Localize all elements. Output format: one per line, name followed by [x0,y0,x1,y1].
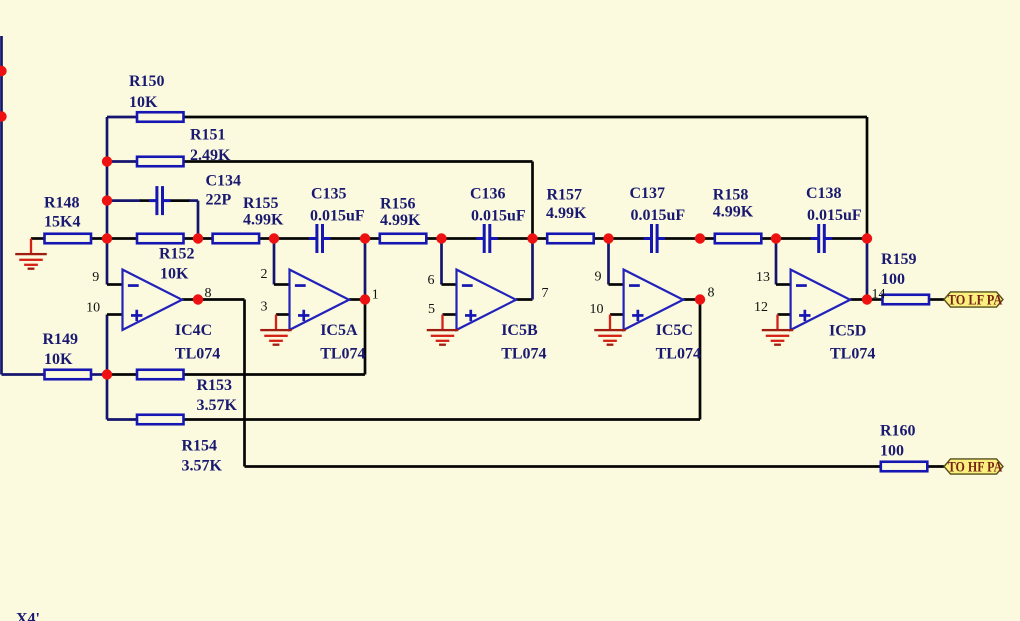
op-amp IC5D [791,270,851,330]
ground at IC5B plus input [427,315,459,346]
wire IC5B minus vertical [440,239,443,285]
svg-text:3.57K: 3.57K [197,397,238,414]
svg-text:R149: R149 [43,331,79,348]
wire vertical x=107 upper [106,117,109,285]
svg-text:TO HF PA: TO HF PA [948,460,1003,476]
junction (700,238.5) [695,233,705,243]
wire main row ground stub [31,237,45,240]
svg-text:4.99K: 4.99K [243,212,284,229]
svg-text:TL074: TL074 [175,346,220,363]
capacitor C138 [811,224,833,253]
junction IC5D output (867,299.5) [862,294,872,304]
wire R160 to port [927,465,944,468]
junction (198,238.5) [193,233,203,243]
junction (107,162) R151 tap [102,156,112,166]
svg-text:4.99K: 4.99K [713,203,754,220]
wire IC5C minus stub [609,283,624,286]
svg-text:C134: C134 [206,173,242,190]
junction (441.5,238.5) [436,233,446,243]
wire R151 feedback drop at x=532 [531,162,534,239]
junction (532.5,238.5) [527,233,537,243]
svg-text:15K4: 15K4 [44,214,80,231]
wire R149 to node [91,373,107,376]
svg-text:14: 14 [872,287,886,302]
svg-text:2: 2 [261,267,268,282]
svg-text:100: 100 [881,271,905,288]
wire IC5D node vertical [866,239,869,300]
wire IC4C minus stub [107,283,123,286]
svg-text:10K: 10K [129,94,158,111]
junction (107,374.5) R149/R153 [102,369,112,379]
wire C134 drop at x=198 [197,201,200,239]
wire IC5D minus stub [776,283,791,286]
resistor R152 [137,234,184,244]
svg-text:100: 100 [880,443,904,460]
svg-text:R148: R148 [44,195,80,212]
svg-text:TL074: TL074 [320,346,365,363]
svg-text:R154: R154 [182,438,218,455]
svg-text:TL074: TL074 [830,346,875,363]
wire IC5D output stub [850,298,867,301]
svg-text:R160: R160 [880,423,916,440]
wire C134 right corner [189,199,198,202]
resistor R159 [883,295,930,305]
ground at R148 [15,239,47,270]
svg-text:9: 9 [595,270,602,285]
junction (776,238.5) [771,233,781,243]
wire IC5A minus vertical [273,239,276,285]
svg-text:0.015uF: 0.015uF [631,207,686,224]
svg-text:5: 5 [428,302,435,317]
wire vertical x=365 output to R153 row [364,300,367,375]
wire IC5D plus stub [778,313,791,316]
svg-text:R157: R157 [547,187,583,204]
capacitor C134 [149,186,171,215]
op-amp IC5B [457,270,517,330]
wire IC5C minus vertical [607,239,610,285]
svg-text:22P: 22P [206,192,232,209]
svg-text:R159: R159 [881,251,917,268]
junction IC5A output (365,299.5) [360,294,370,304]
svg-text:IC5B: IC5B [501,322,538,339]
wire IC5B node vertical [531,239,534,300]
svg-text:R156: R156 [380,196,416,213]
ground at IC5A plus input [260,315,292,346]
wire node to R154 [107,418,137,421]
capacitor C135 [309,224,331,253]
svg-text:C138: C138 [806,185,842,202]
wire R159 to port [929,298,944,301]
svg-text:R153: R153 [197,377,233,394]
op-amp IC4C [123,270,183,330]
svg-text:10K: 10K [160,265,189,282]
wire main row C137 to R158 [665,237,716,240]
wire IC4C output stub [182,298,198,301]
svg-text:4.99K: 4.99K [546,205,587,222]
svg-text:TL074: TL074 [656,346,701,363]
wire main row R155 to C135 [259,237,310,240]
svg-text:C137: C137 [630,185,666,202]
op-amp IC5C [624,270,684,330]
resistor R151 [137,157,184,167]
wire R151 row left stub [107,160,137,163]
wire IC5A node vertical [364,239,367,300]
resistor R148 [45,234,92,244]
ground at IC5D plus input [762,315,794,346]
wire R153 to x=365 [184,373,366,376]
wire IC5D minus vertical [775,239,778,285]
resistor R156 [380,234,427,244]
wire main row R152 to R155 [184,237,213,240]
svg-text:3.57K: 3.57K [182,458,223,475]
svg-text:IC5C: IC5C [656,322,693,339]
wire main row C138 to x=867 [832,237,867,240]
resistor R158 [715,234,762,244]
junction (867,238.5) [862,233,872,243]
resistor R153 [137,370,184,380]
wire main row R158 to C138 [761,237,811,240]
wire left bus to R149 [2,373,45,376]
resistor R160 [881,462,928,472]
junction IC4C output (198,299.5) [193,294,203,304]
svg-text:R150: R150 [129,73,165,90]
svg-text:R155: R155 [243,195,279,212]
svg-text:X4': X4' [16,611,40,621]
svg-text:R158: R158 [713,187,749,204]
svg-text:10: 10 [590,302,604,317]
svg-text:1: 1 [372,288,379,303]
wire main row R156 to C136 [426,237,477,240]
wire C134 left lead black part [140,199,149,202]
junction (365,238.5) [360,233,370,243]
svg-text:0.015uF: 0.015uF [471,208,526,225]
svg-text:4.99K: 4.99K [380,212,421,229]
svg-text:R152: R152 [159,246,195,263]
resistor R157 [547,234,594,244]
svg-text:0.015uF: 0.015uF [310,208,365,225]
svg-text:13: 13 [756,270,770,285]
svg-text:9: 9 [92,270,99,285]
capacitor C136 [476,224,498,253]
svg-text:7: 7 [542,286,549,301]
node on left bus (upper stub) [0,66,7,76]
svg-text:TL074: TL074 [501,346,546,363]
svg-text:10K: 10K [44,351,73,368]
capacitor C137 [644,224,666,253]
wire top feedback drop at x=867 [866,117,869,239]
wire vertical x=700 output to R154 row [699,300,702,420]
wire C134 left lead [107,199,141,202]
svg-text:12: 12 [754,300,768,315]
resistor R150 [137,112,184,122]
resistor R154 [137,415,184,425]
wire vertical x=244.5 to HF row [243,300,246,467]
svg-text:6: 6 [428,273,435,288]
wire left vertical bus [0,36,3,375]
wire IC5C plus stub [610,313,624,316]
wire IC4C plus stub [107,313,123,316]
svg-text:IC4C: IC4C [175,322,212,339]
svg-text:3: 3 [261,300,268,315]
junction IC5C output (700,299.5) [695,294,705,304]
wire node to R153 [107,373,137,376]
wire C134 right lead [170,199,190,202]
svg-text:R151: R151 [190,126,226,143]
wire IC4C output to x=244.5 [198,298,245,301]
wire main row C135 to R156 [330,237,380,240]
svg-text:10: 10 [86,301,100,316]
wire HF row to R160 [245,465,882,468]
op-amp IC5A [290,270,350,330]
wire vertical x=107 lower (plus input to R153/R154 rows) [106,315,109,420]
wire R151 row to x=532 [184,160,533,163]
svg-text:IC5D: IC5D [829,323,866,340]
port TO LF PA [944,292,1003,309]
node on left bus (lower stub) [0,111,7,121]
port TO HF PA [944,459,1003,476]
junction (274,238.5) [269,233,279,243]
wire main row R157 to C137 [594,237,645,240]
wire IC5B plus stub [443,313,457,316]
wire IC5A minus stub [274,283,290,286]
svg-text:8: 8 [205,286,212,301]
wire IC5A output stub [349,298,365,301]
svg-text:2.49K: 2.49K [190,147,231,164]
resistor R149 [45,370,92,380]
junction (608.5,238.5) [603,233,613,243]
wire main row C136 to R157 [497,237,547,240]
svg-text:TO LF PA: TO LF PA [948,293,1003,309]
ground at IC5C plus input [594,315,626,346]
wire IC5D output to R159 [867,298,883,301]
wire IC5B output stub [516,298,533,301]
wire R150 row left stub [107,116,137,119]
svg-text:8: 8 [708,286,715,301]
svg-text:C136: C136 [470,186,506,203]
resistor R155 [213,234,260,244]
wire IC5C output stub [683,298,700,301]
wire IC5A plus stub [276,313,290,316]
svg-text:C135: C135 [311,186,347,203]
svg-text:IC5A: IC5A [320,322,358,339]
wire main row R148 to node [91,237,137,240]
svg-text:0.015uF: 0.015uF [807,207,862,224]
wire R154 to x=700 [184,418,701,421]
wire IC5B minus stub [442,283,457,286]
junction R148/R152/C134/rows at (107,238.5) [102,233,112,243]
wire R150 row to far right [184,116,868,119]
junction (107,201) C134 tap [102,195,112,205]
